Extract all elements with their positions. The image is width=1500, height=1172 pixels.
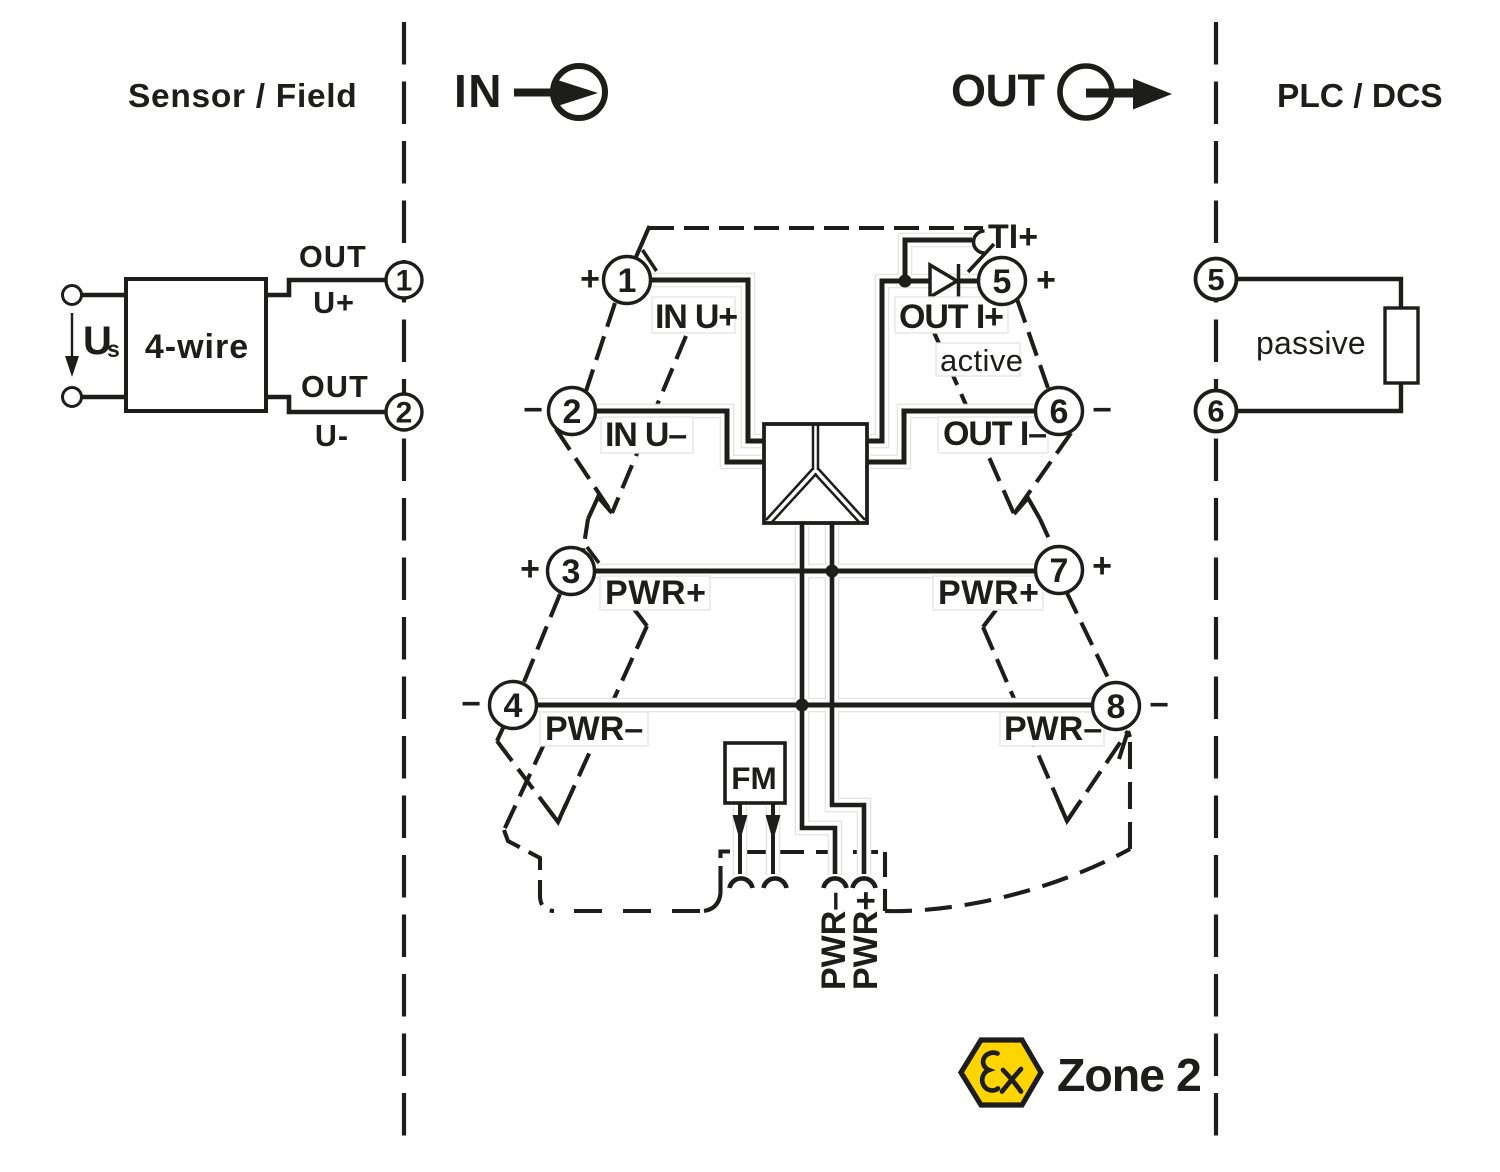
- svg-text:s: s: [107, 336, 120, 362]
- svg-text:U+: U+: [313, 286, 355, 320]
- svg-text:1: 1: [396, 265, 413, 298]
- dashed link notch to terminal 7: [1040, 519, 1055, 552]
- svg-text:2: 2: [396, 397, 413, 430]
- svg-text:OUT: OUT: [951, 65, 1045, 116]
- terminal 1 left column: [386, 262, 422, 298]
- notch below left PWR+ label: [634, 609, 647, 626]
- 4-wire transmitter box: [126, 279, 266, 411]
- svg-text:−: −: [523, 391, 543, 429]
- junction dot PWR-: [796, 699, 809, 712]
- Us arrow: [71, 313, 73, 358]
- junction dot TI+ tap: [899, 275, 912, 288]
- svg-text:5: 5: [1207, 262, 1224, 297]
- svg-text:+: +: [520, 550, 540, 588]
- svg-text:−: −: [461, 685, 481, 723]
- transformer isolator symbol: [764, 424, 867, 523]
- connector dashed right side down: [883, 852, 887, 911]
- IN arrow icon: [514, 66, 605, 118]
- label background boxes: [540, 297, 1104, 746]
- svg-text:6: 6: [1050, 393, 1069, 431]
- terminal 6 right column: [1196, 391, 1237, 432]
- svg-text:1: 1: [618, 262, 637, 300]
- svg-text:8: 8: [1107, 688, 1126, 726]
- dashed link terminal 2 to V-notch: [556, 429, 612, 513]
- wire PWR- rail: [537, 703, 1093, 708]
- module outline corner to terminal 1: [636, 226, 650, 257]
- dashed link kink to bottom apex: [497, 741, 558, 822]
- wire PWR+ rail: [594, 569, 1036, 574]
- wire transformer to terminal 6: [867, 411, 1036, 462]
- svg-text:+: +: [580, 260, 600, 298]
- svg-text:Zone 2: Zone 2: [1057, 1049, 1201, 1101]
- kink below terminal 4: [497, 728, 503, 741]
- terminal 2 middle: [549, 388, 596, 435]
- polarity + / - signs: [461, 260, 1169, 724]
- wire 4-wire box to terminal 2: [266, 397, 386, 412]
- svg-text:+: +: [1092, 547, 1112, 585]
- arrow tick at terminal 8: [1119, 731, 1130, 759]
- terminal 5 right column: [1196, 259, 1237, 300]
- wire TI+ tap: [905, 240, 972, 281]
- disconnect tick at terminal 3: [587, 547, 599, 563]
- svg-text:7: 7: [1050, 552, 1069, 590]
- source open circle top: [63, 286, 82, 305]
- wire 4-wire box to terminal 1: [266, 280, 386, 295]
- svg-text:OUT: OUT: [299, 240, 367, 274]
- Ex epsilon glyph: [982, 1053, 998, 1091]
- svg-text:−: −: [1092, 391, 1112, 429]
- wire casings (gray halo): [537, 240, 1093, 875]
- wire terminal 2 to transformer: [595, 411, 764, 462]
- dashed link apex to terminal 8: [1067, 731, 1128, 821]
- svg-text:PWR+: PWR+: [605, 574, 707, 612]
- svg-text:3: 3: [562, 553, 581, 591]
- svg-text:OUT: OUT: [301, 370, 369, 404]
- terminal 2 left column: [386, 394, 422, 430]
- connector outline crossing line bottom-left: [504, 742, 545, 830]
- dashed vertical below terminal 8: [1128, 737, 1132, 849]
- dashed link from OUT I+ to V-notch right: [933, 330, 1014, 514]
- wire source to 4-wire box top: [82, 293, 126, 298]
- Ex x glyph: [1002, 1069, 1021, 1092]
- wire FM left lead: [738, 803, 742, 874]
- V-notch zigzag above terminal 7: [1014, 498, 1040, 519]
- wire FM right lead: [771, 803, 775, 874]
- svg-text:active: active: [940, 343, 1023, 378]
- wire terminal 1 to transformer: [651, 280, 764, 441]
- svg-text:IN: IN: [454, 65, 503, 117]
- svg-text:PWR–: PWR–: [1004, 710, 1102, 748]
- svg-text:FM: FM: [731, 760, 776, 796]
- wire source to 4-wire box bottom: [82, 395, 126, 400]
- terminal 7 middle: [1036, 547, 1083, 594]
- wire casings (white): [537, 240, 1093, 875]
- terminal 5 middle: [979, 258, 1026, 305]
- disconnect tick at terminal 7: [1044, 547, 1057, 560]
- dashed link terminal 6 to V-notch right: [1014, 433, 1071, 514]
- Ex hexagon: [961, 1040, 1041, 1105]
- OUT arrow icon: [1060, 66, 1172, 118]
- dashed link from IN U+ to V-notch: [612, 336, 686, 513]
- terminal numbers 1-8: [504, 262, 1126, 726]
- svg-text:OUT I+: OUT I+: [899, 298, 1003, 336]
- svg-text:OUT I–: OUT I–: [943, 415, 1046, 453]
- svg-text:PLC / DCS: PLC / DCS: [1277, 78, 1443, 115]
- svg-text:2: 2: [563, 393, 582, 431]
- wire PWR- feed down: [802, 523, 835, 874]
- disconnect tick at terminal 1: [643, 250, 657, 271]
- FM arrow right: [766, 815, 781, 841]
- disconnect arc at terminal 5: [974, 231, 985, 253]
- svg-text:PWR+: PWR+: [847, 891, 885, 990]
- module outline top dashed line: [649, 226, 983, 230]
- junction dot PWR+: [826, 565, 839, 578]
- wire load resistor to terminal 6: [1237, 383, 1401, 411]
- socket arcs at module bottom: [730, 878, 876, 888]
- boundary dashed line right (OUT | PLC/DCS): [1214, 22, 1218, 1150]
- wire transformer to diode/terminal 5: [867, 281, 980, 441]
- V apex solid tip left: [546, 804, 566, 822]
- svg-text:passive: passive: [1256, 325, 1366, 361]
- svg-text:IN U+: IN U+: [655, 298, 737, 336]
- connector bottom dashed line left: [554, 909, 706, 913]
- svg-text:U-: U-: [315, 419, 349, 453]
- svg-text:PWR+: PWR+: [938, 574, 1040, 612]
- svg-text:TI+: TI+: [988, 218, 1038, 256]
- FM arrow left: [733, 815, 748, 841]
- connector swoop curve to terminal 8: [885, 849, 1130, 911]
- connector corner bottom left of power block: [704, 852, 730, 912]
- boundary dashed line left (Sensor/Field | IN): [402, 22, 406, 1150]
- svg-text:IN U–: IN U–: [605, 416, 686, 454]
- svg-text:−: −: [1149, 686, 1169, 724]
- terminal 3 middle: [548, 548, 595, 595]
- dashed link right notch to bottom apex right: [983, 627, 1067, 821]
- dashed link terminal 1 to 2: [586, 303, 615, 391]
- terminal 1 middle: [604, 257, 651, 304]
- terminal 6 middle: [1036, 388, 1083, 435]
- svg-text:+: +: [1036, 261, 1056, 299]
- svg-text:Sensor / Field: Sensor / Field: [128, 78, 357, 115]
- terminal 4 middle: [490, 682, 537, 729]
- connector outline corner chain bottom-left: [504, 830, 554, 911]
- terminal 8 middle: [1093, 683, 1140, 730]
- V-notch zigzag above terminal 3: [588, 497, 612, 519]
- connector dashed top line around power terminals: [730, 850, 885, 854]
- dashed link terminal 7 to 8: [1066, 591, 1112, 686]
- wire PWR+ feed down: [832, 523, 864, 874]
- dashed link terminal 5 to 6: [1017, 299, 1048, 388]
- svg-text:PWR–: PWR–: [545, 710, 643, 748]
- svg-text:4: 4: [504, 687, 523, 725]
- dashed link notch to terminal 3: [583, 519, 588, 551]
- notch below right PWR+ label: [983, 610, 996, 627]
- svg-text:6: 6: [1207, 394, 1224, 429]
- diode D1: [930, 264, 959, 298]
- V apex solid tip right: [1060, 803, 1079, 821]
- load resistor: [1385, 308, 1418, 383]
- svg-text:4-wire: 4-wire: [145, 328, 249, 366]
- wire terminal 5 to load resistor: [1237, 279, 1401, 308]
- dashed link left notch to bottom apex: [558, 626, 647, 822]
- dashed link terminal 3 to 4: [524, 594, 560, 682]
- function monitoring FM box: [725, 743, 785, 803]
- source open circle bottom: [63, 388, 82, 407]
- svg-text:5: 5: [993, 263, 1012, 301]
- disconnect slash at terminal 5: [968, 244, 994, 272]
